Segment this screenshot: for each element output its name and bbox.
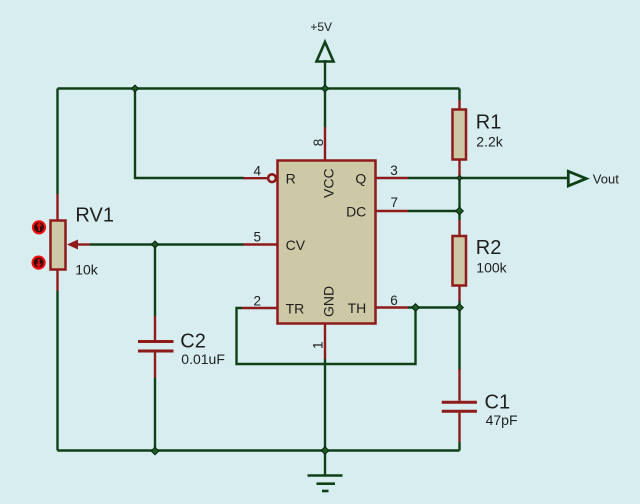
resistor R2 [453,220,508,301]
pin 5 CV stub [244,230,278,245]
svg-text:3: 3 [390,163,398,178]
svg-text:R: R [286,170,296,186]
node C2 rail junction [151,447,159,455]
wire left rail upper [56,89,58,195]
wire left rail lower [56,291,58,451]
wire C2 bottom to rail [154,378,156,451]
svg-text:C1: C1 [485,391,511,413]
pin 3 Q stub [376,163,409,178]
pin 7 DC stub [376,195,409,211]
wire R1 bottom to DC node [458,178,460,220]
node Q R1 junction [457,175,462,180]
pin 6 TH stub [376,293,409,308]
svg-text:4: 4 [254,163,262,178]
svg-text:TH: TH [348,300,367,316]
node TH R2 C1 junction [456,304,464,312]
node ground rail junction [321,447,329,455]
svg-text:VCC: VCC [321,168,337,198]
svg-text:GND: GND [321,286,337,317]
svg-text:R1: R1 [476,111,502,133]
svg-text:6: 6 [390,293,398,308]
svg-text:TR: TR [286,300,305,316]
node TR TH junction [412,304,420,312]
svg-text:Q: Q [355,170,366,186]
wire C1 bottom to rail [458,442,460,451]
wire TH to node [408,306,460,308]
power +5V symbol [310,20,333,62]
svg-text:2: 2 [254,293,262,308]
node +5V junction [322,85,329,92]
svg-text:100k: 100k [476,260,507,276]
svg-text:47pF: 47pF [486,412,518,428]
wire Q output to Vout [408,177,568,179]
resistor R1 [453,100,504,178]
pin 4 R bubble [243,163,276,182]
svg-text:2.2k: 2.2k [476,134,503,150]
wire node down to C2 [154,245,156,317]
svg-text:RV1: RV1 [75,205,114,227]
terminal Vout [568,171,619,186]
pin 2 TR stub [242,293,278,308]
node CV wiper junction [152,241,159,248]
wire bottom rail [58,449,460,451]
svg-text:CV: CV [286,237,306,253]
wire R1 top corner [458,89,460,101]
svg-text:R2: R2 [476,237,502,259]
svg-text:10k: 10k [75,262,99,278]
svg-text:+5V: +5V [310,20,332,34]
svg-text:1: 1 [311,341,326,349]
node top-left junction [132,85,139,92]
node DC junction [456,207,464,215]
svg-text:5: 5 [254,230,262,245]
ground [308,476,343,492]
wire +5V stem [324,60,326,127]
RV1 down button [31,256,45,270]
svg-text:8: 8 [311,139,326,147]
wire DC to node [408,210,460,212]
wire wiper to node [90,243,155,245]
pin 1 GND stub [311,324,326,360]
wire reset branch to pin 4 [135,89,244,179]
wire CV to wiper node [155,243,244,245]
wire ground stem [324,451,326,476]
svg-text:DC: DC [346,203,366,219]
RV1 up button [32,220,46,234]
capacitor C2 [138,316,225,378]
capacitor C1 [442,369,518,442]
wire top rail [58,87,460,89]
wire TH node down to C1 [458,308,460,371]
wire TR loop [237,308,416,365]
wire pin1 GND down to rail [324,359,326,451]
op-amp U1 555 body [278,161,376,324]
svg-text:Vout: Vout [593,171,619,186]
svg-text:C2: C2 [180,330,206,352]
pin 8 VCC stub [311,127,326,161]
wire R2 bottom to TH node [458,301,460,308]
svg-text:0.01uF: 0.01uF [181,351,225,367]
svg-text:7: 7 [391,195,399,210]
potentiometer RV1 [51,194,114,291]
